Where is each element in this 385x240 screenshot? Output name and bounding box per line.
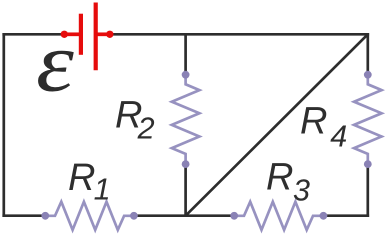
resistor R1 zigzag: [45, 202, 134, 230]
wire: middle vertical branch upper segment: [184, 34, 187, 71]
svg-text:2: 2: [137, 112, 155, 146]
node: R1 left terminal dot: [41, 212, 49, 220]
svg-text:R: R: [68, 157, 95, 199]
wire: top wire right segment (battery to top-right corner): [110, 33, 369, 36]
battery E: red lead left: [64, 32, 79, 36]
battery E: long plate (positive): [94, 3, 98, 71]
wire: right vertical wire upper segment: [366, 33, 369, 72]
svg-text:R: R: [266, 157, 293, 199]
svg-text:ε: ε: [36, 15, 74, 110]
node: R2 top terminal dot: [182, 71, 190, 79]
node: R4 bottom terminal dot: [364, 160, 372, 168]
svg-text:3: 3: [293, 173, 310, 207]
node: R2 bottom terminal dot: [182, 160, 190, 168]
node: R3 right terminal dot: [320, 212, 328, 220]
wire: bottom wire middle segment: [133, 214, 235, 217]
battery E: left terminal dot: [61, 31, 68, 38]
battery E: right terminal dot: [106, 31, 113, 38]
node: R4 top terminal dot: [364, 71, 372, 79]
battery E: short plate (negative): [79, 14, 83, 55]
node: R1 right terminal dot: [130, 212, 138, 220]
wire: right vertical wire lower segment: [366, 168, 369, 218]
node: R3 left terminal dot: [230, 212, 238, 220]
svg-text:1: 1: [94, 173, 111, 207]
resistor R4 zigzag: [354, 78, 382, 161]
wire: bottom wire left segment: [2, 214, 46, 217]
resistor R3 zigzag: [234, 202, 323, 230]
wire: top wire left segment (corner to battery): [2, 33, 64, 36]
svg-text:4: 4: [330, 120, 347, 154]
wire: middle vertical branch lower segment: [184, 168, 187, 216]
battery E: red lead right: [97, 32, 110, 36]
svg-text:R: R: [300, 100, 327, 142]
wire: bottom wire right segment: [322, 214, 369, 217]
resistor R2 zigzag: [172, 78, 200, 161]
wire: left vertical wire: [2, 33, 5, 217]
wire: diagonal wire from bottom-middle junction to top-right corner: [186, 34, 368, 215]
